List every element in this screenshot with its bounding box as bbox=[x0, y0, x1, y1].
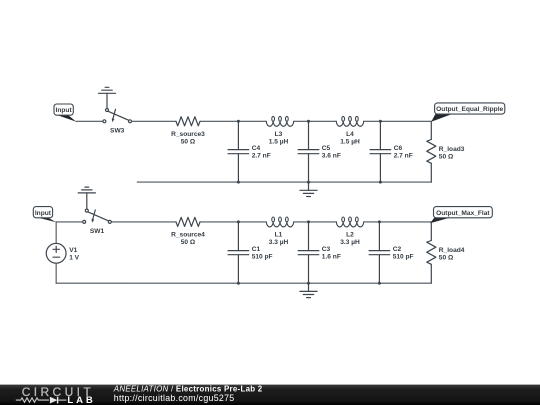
label C4 value bbox=[252, 145, 271, 159]
label V1 value bbox=[69, 247, 79, 261]
svg-text:C6: C6 bbox=[394, 145, 403, 152]
node flag Output_Equal_Ripple bbox=[431, 103, 505, 122]
inductor L1 bbox=[266, 217, 293, 227]
svg-text:3.3 µH: 3.3 µH bbox=[269, 239, 289, 246]
logo diode bbox=[50, 397, 58, 404]
svg-text:3.3 µH: 3.3 µH bbox=[340, 239, 360, 246]
svg-text:Output_Equal_Ripple: Output_Equal_Ripple bbox=[436, 106, 503, 113]
svg-text:2.7 nF: 2.7 nF bbox=[252, 152, 271, 159]
wire: node C3 to L2 bbox=[309, 221, 337, 223]
label L4 value bbox=[340, 131, 360, 145]
node dot C3 top bbox=[307, 220, 310, 223]
svg-text:510 pF: 510 pF bbox=[393, 253, 414, 260]
inductor L3 bbox=[266, 116, 293, 126]
svg-text:1.6 nF: 1.6 nF bbox=[322, 253, 341, 260]
svg-text:C2: C2 bbox=[393, 246, 402, 253]
wire: node C4 to L3 bbox=[238, 120, 266, 122]
svg-text:50 Ω: 50 Ω bbox=[439, 255, 454, 262]
svg-text:1.5 µH: 1.5 µH bbox=[269, 138, 289, 145]
svg-text:R_source3: R_source3 bbox=[171, 131, 205, 138]
ground on bottom rail bbox=[300, 283, 317, 297]
ground on top rail bbox=[300, 182, 317, 196]
svg-text:50 Ω: 50 Ω bbox=[181, 138, 196, 145]
svg-text:2.7 nF: 2.7 nF bbox=[394, 152, 413, 159]
wire: L2 to node C2 bbox=[364, 221, 380, 223]
node dot C6 bottom bbox=[379, 181, 382, 184]
svg-text:LAB: LAB bbox=[67, 395, 95, 405]
svg-text:Input: Input bbox=[56, 107, 73, 114]
wire: node C5 to L4 bbox=[309, 120, 337, 122]
wire: V1 top lead bbox=[55, 222, 57, 244]
logo resistor zigzag bbox=[16, 398, 49, 402]
wire: node C1 to L1 bbox=[238, 221, 266, 223]
label C2 value bbox=[393, 246, 414, 260]
svg-text:L3: L3 bbox=[275, 131, 283, 138]
label R_source4 value bbox=[171, 232, 205, 246]
capacitor C6 bbox=[370, 121, 391, 182]
svg-text:V1: V1 bbox=[69, 247, 77, 254]
ground above SW1 bbox=[78, 187, 95, 209]
label C3 value bbox=[322, 246, 341, 260]
svg-text:1 V: 1 V bbox=[69, 254, 79, 261]
svg-text:C1: C1 bbox=[252, 246, 261, 253]
resistor R_load3 bbox=[427, 121, 436, 182]
capacitor C1 bbox=[228, 222, 249, 283]
wire: top circuit bottom rail bbox=[137, 181, 431, 183]
wire: L1 to node C3 bbox=[294, 221, 309, 223]
wire: L3 to node C5 bbox=[294, 120, 309, 122]
svg-text:C5: C5 bbox=[322, 145, 331, 152]
svg-text:Output_Max_Flat: Output_Max_Flat bbox=[436, 210, 490, 217]
resistor R_source4 bbox=[176, 217, 200, 226]
capacitor C5 bbox=[298, 121, 319, 182]
node dot C2 top bbox=[378, 220, 381, 223]
inductor L4 bbox=[336, 116, 363, 126]
svg-text:C4: C4 bbox=[252, 145, 261, 152]
capacitor C2 bbox=[369, 222, 390, 283]
label C6 value bbox=[394, 145, 413, 159]
svg-text:L2: L2 bbox=[346, 232, 354, 239]
svg-text:R_load3: R_load3 bbox=[439, 146, 465, 153]
label R_source3 value bbox=[171, 131, 205, 145]
wire: V1 bottom lead bbox=[55, 263, 57, 283]
wire: bottom circuit bottom rail bbox=[56, 282, 431, 284]
label C5 value bbox=[322, 145, 341, 159]
svg-text:R_source4: R_source4 bbox=[171, 232, 205, 239]
svg-text:SW3: SW3 bbox=[110, 127, 125, 134]
node dot C3 bottom bbox=[307, 282, 310, 285]
resistor R_source3 bbox=[176, 117, 200, 126]
node flag Input (top) bbox=[54, 104, 76, 122]
voltage source V1 bbox=[46, 243, 66, 263]
label R_load4 value bbox=[439, 247, 465, 261]
label R_load3 value bbox=[439, 146, 465, 160]
node dot C5 bottom bbox=[307, 181, 310, 184]
svg-text:Input: Input bbox=[35, 210, 52, 217]
ground above SW3 bbox=[98, 87, 115, 108]
wire: SW1 to R_source4 bbox=[111, 221, 176, 223]
switch SW1 bbox=[83, 209, 112, 223]
svg-text:SW1: SW1 bbox=[90, 228, 105, 235]
wire: bottom input to SW1 bbox=[56, 221, 83, 223]
node dot C2 bottom bbox=[378, 282, 381, 285]
capacitor C3 bbox=[298, 222, 319, 283]
node dot C4 bottom bbox=[237, 181, 240, 184]
label L3 value bbox=[269, 131, 289, 145]
svg-text:L4: L4 bbox=[346, 131, 354, 138]
resistor R_load4 bbox=[427, 222, 436, 283]
footer bar bbox=[0, 385, 540, 405]
capacitor C4 bbox=[228, 121, 249, 182]
svg-text:R_load4: R_load4 bbox=[439, 247, 465, 254]
switch SW3 bbox=[103, 109, 132, 123]
node dot C5 top bbox=[307, 120, 310, 123]
node flag Output_Max_Flat bbox=[430, 207, 492, 224]
node dot C6 top bbox=[379, 120, 382, 123]
svg-text:3.6 nF: 3.6 nF bbox=[322, 152, 341, 159]
svg-text:510 pF: 510 pF bbox=[252, 253, 273, 260]
wire: node C2 to output node bbox=[379, 221, 431, 223]
svg-text:50 Ω: 50 Ω bbox=[181, 239, 196, 246]
wire: node C6 to output node bbox=[380, 120, 431, 122]
svg-text:1.5 µH: 1.5 µH bbox=[340, 138, 360, 145]
node flag Input (bottom) bbox=[33, 207, 56, 223]
svg-text:50 Ω: 50 Ω bbox=[439, 154, 454, 161]
svg-text:L1: L1 bbox=[275, 232, 283, 239]
node dot C1 top bbox=[237, 220, 240, 223]
label L1 value bbox=[269, 232, 289, 246]
label L2 value bbox=[340, 232, 360, 246]
node dot C1 bottom bbox=[237, 282, 240, 285]
node dot C4 top bbox=[237, 120, 240, 123]
svg-text:C3: C3 bbox=[322, 246, 331, 253]
label C1 value bbox=[252, 246, 273, 260]
inductor L2 bbox=[336, 217, 363, 227]
wire: R_source3 to node C4 bbox=[200, 120, 238, 122]
wire: SW3 to R_source3 bbox=[131, 120, 176, 122]
wire: R_source4 to node C1 bbox=[200, 221, 238, 223]
wire: L4 to node C6 bbox=[364, 120, 381, 122]
wire: top circuit input to SW3 bbox=[76, 120, 103, 122]
svg-text:http://circuitlab.com/cgu5275: http://circuitlab.com/cgu5275 bbox=[114, 393, 235, 403]
